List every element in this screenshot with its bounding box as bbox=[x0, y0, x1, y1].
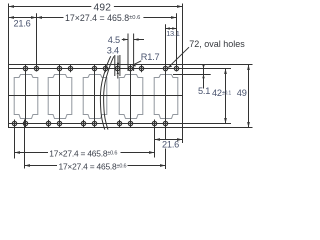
dimension lines bbox=[9, 7, 249, 166]
49 dim vertical bbox=[248, 65, 250, 128]
5.1 arrows bbox=[202, 65, 205, 69]
42 bbox=[224, 69, 227, 75]
hole circles top row bbox=[12, 66, 178, 125]
svg-text:4.5: 4.5 bbox=[108, 35, 120, 45]
strip outline bbox=[9, 65, 183, 128]
svg-text:21.6: 21.6 bbox=[162, 140, 179, 150]
492 bbox=[9, 5, 15, 8]
72 leader bbox=[168, 47, 189, 67]
bottom row2 dim bbox=[25, 165, 58, 167]
cutouts gray castle shapes bbox=[14, 75, 178, 119]
hole circles bottom row bbox=[12, 121, 16, 125]
hole ticks bottom bbox=[48, 120, 50, 127]
4.5 ext verticals (slot ends of hole at station 4 centre) bbox=[127, 34, 129, 72]
49 bbox=[247, 65, 250, 71]
row1 bbox=[15, 151, 21, 154]
svg-text:R1.7: R1.7 bbox=[141, 52, 160, 62]
node bottom hole centerline bbox=[9, 123, 232, 125]
bottom ext verticals bbox=[14, 120, 16, 159]
492 dim line bbox=[9, 6, 92, 8]
svg-text:17×27.4 = 465.8±0.6: 17×27.4 = 465.8±0.6 bbox=[59, 161, 127, 171]
3.4 arrows bbox=[117, 63, 120, 67]
R1.7 leader head bbox=[132, 64, 136, 66]
4.5 bbox=[123, 38, 128, 41]
break lines bbox=[100, 56, 114, 129]
svg-text:21.6: 21.6 bbox=[14, 18, 31, 28]
svg-text:13.1: 13.1 bbox=[166, 29, 180, 38]
slot ext verticals of extra hole near break bbox=[114, 55, 116, 76]
svg-text:17×27.4 = 465.8±0.6: 17×27.4 = 465.8±0.6 bbox=[65, 13, 140, 23]
R1.7 leader bbox=[133, 61, 141, 65]
bottom row1 dim bbox=[15, 152, 49, 154]
station verticals bbox=[9, 4, 183, 170]
72 leader head bbox=[168, 65, 172, 68]
svg-text:5.1: 5.1 bbox=[198, 86, 210, 96]
node middle centerline bbox=[9, 95, 183, 97]
row2 bbox=[25, 164, 31, 167]
svg-text:492: 492 bbox=[94, 2, 112, 13]
svg-text:72, oval holes: 72, oval holes bbox=[189, 39, 245, 49]
3.4 stems bbox=[117, 56, 119, 64]
svg-text:42±0.1: 42±0.1 bbox=[212, 88, 231, 98]
13.1 bbox=[166, 27, 170, 30]
svg-text:3.4: 3.4 bbox=[107, 46, 119, 56]
5.1 stem bbox=[203, 64, 205, 89]
21.6 bottom bbox=[155, 138, 161, 141]
wire cutout-top extension (5.1 ref) bbox=[173, 74, 211, 76]
hole ticks top bbox=[70, 65, 72, 72]
465.8 top bbox=[37, 16, 43, 19]
wire bottom edge extension right bbox=[183, 127, 253, 129]
21.6/465.8 top dim line bbox=[9, 17, 64, 19]
ext verticals top bbox=[8, 4, 10, 65]
node top hole centerline bbox=[9, 68, 232, 70]
arrowheads bbox=[9, 5, 250, 167]
svg-text:17×27.4 = 465.8±0.6: 17×27.4 = 465.8±0.6 bbox=[49, 149, 117, 159]
21.6 top bbox=[9, 16, 15, 19]
42 dim vertical bbox=[225, 69, 227, 124]
wire top edge extension right bbox=[183, 64, 253, 66]
4.5 dim arrows lines bbox=[122, 39, 128, 41]
svg-text:49: 49 bbox=[237, 88, 247, 98]
21.6 bottom dim bbox=[155, 139, 183, 141]
13.1 dim line bbox=[166, 28, 177, 30]
